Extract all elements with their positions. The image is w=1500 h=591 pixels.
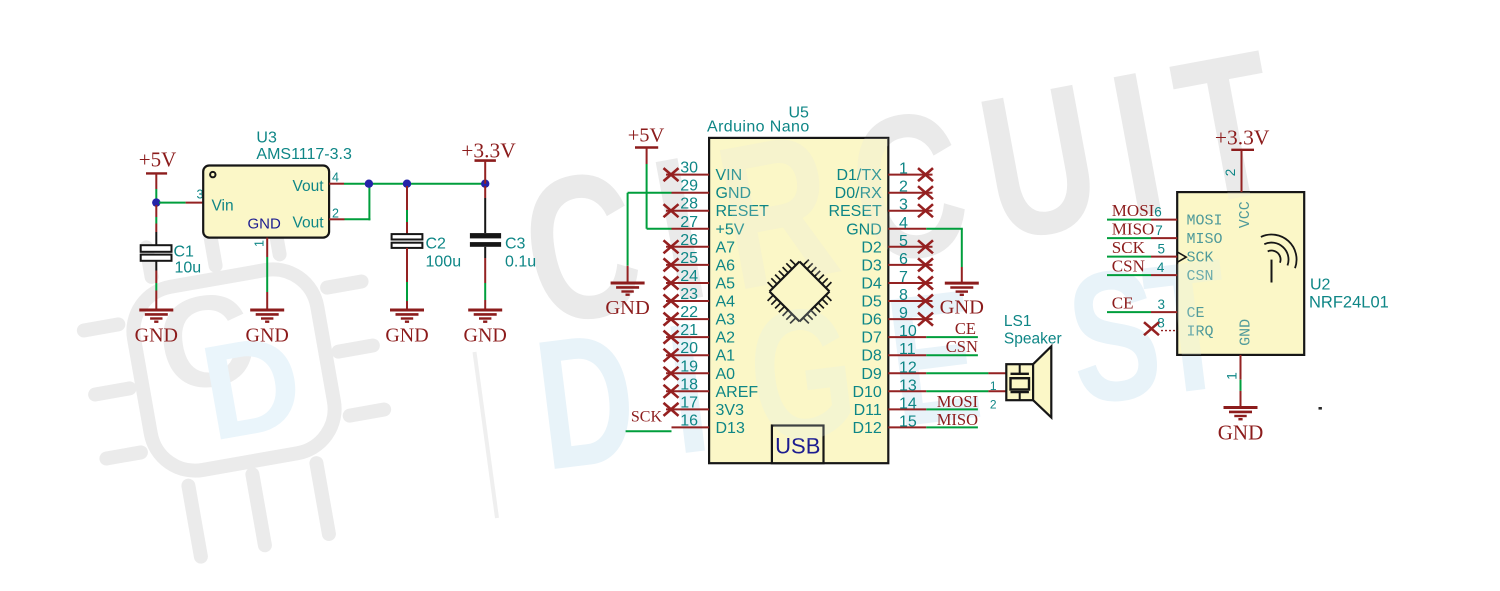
watermark text DIGEST (decorative) <box>526 220 1241 510</box>
svg-text:27: 27 <box>680 214 698 231</box>
no-connect X pin 23 <box>664 295 679 308</box>
svg-text:3V3: 3V3 <box>716 402 745 419</box>
svg-text:D6: D6 <box>861 312 882 329</box>
wire U5 pin 29 GND to ground <box>628 192 672 194</box>
svg-text:D8: D8 <box>861 348 882 365</box>
no-connect X pin 21 <box>664 331 679 344</box>
no-connect X pin 20 <box>664 349 679 362</box>
wire D8 CSN <box>926 354 978 356</box>
wire U5 pin 4 GND to ground (right) <box>926 228 963 230</box>
svg-text:2: 2 <box>899 179 908 196</box>
svg-text:0.1u: 0.1u <box>505 254 536 271</box>
svg-text:+3.3V: +3.3V <box>1215 126 1270 150</box>
svg-text:29: 29 <box>680 178 698 195</box>
svg-text:3: 3 <box>899 197 908 214</box>
wire +5V to node <box>155 173 157 189</box>
U5 left pin 28 RESET wire <box>666 210 709 212</box>
ground GND (under C1) <box>135 310 178 347</box>
wire CSN to U2 <box>1107 274 1151 276</box>
svg-text:5: 5 <box>1158 241 1166 256</box>
no-connect X pin 8 <box>918 295 933 308</box>
wire MOSI to U2 <box>1107 219 1151 221</box>
wire SCK to U2 <box>1107 256 1151 258</box>
U5 right pin 5 D2 wire <box>888 246 932 248</box>
svg-text:D9: D9 <box>861 366 882 383</box>
U5 right pin 8 D5 wire <box>888 300 932 302</box>
svg-text:CSN: CSN <box>1112 257 1145 276</box>
U5 right pin 14 D11 wire <box>888 408 926 410</box>
svg-text:MISO: MISO <box>937 410 978 429</box>
svg-text:CE: CE <box>955 319 976 338</box>
svg-text:100u: 100u <box>426 254 462 271</box>
U5 left pin 23 A4 wire <box>666 300 709 302</box>
speaker LS1 horn <box>1033 346 1051 417</box>
svg-text:16: 16 <box>680 412 698 429</box>
U5 left pin 20 A1 wire <box>666 354 709 356</box>
wire U2 GND to ground <box>1240 355 1242 380</box>
U3 pin 2 wire <box>329 218 344 220</box>
watermark text CIRCUIT (decorative) <box>506 3 1316 370</box>
U5 left pin 30 VIN wire <box>666 174 709 176</box>
U3 pin 1 wire (GND) <box>266 238 268 257</box>
wire pin2 up to bus <box>368 184 370 221</box>
svg-text:2: 2 <box>990 398 997 412</box>
no-connect X pin 28 <box>664 204 679 217</box>
svg-text:6: 6 <box>899 251 908 268</box>
svg-text:3: 3 <box>1158 297 1166 312</box>
U5 left pin 24 A5 wire <box>666 282 709 284</box>
svg-text:U3: U3 <box>256 130 277 147</box>
svg-text:Speaker: Speaker <box>1004 331 1062 348</box>
no-connect X IRQ <box>1144 322 1159 335</box>
U5 right pin 1 D1/TX wire <box>888 174 932 176</box>
ground GND (Arduino left) <box>605 283 649 319</box>
wire D7 CE <box>926 336 978 338</box>
svg-text:U2: U2 <box>1310 277 1331 294</box>
no-connect X pin 5 <box>918 240 933 253</box>
no-connect X pin 1 <box>918 168 933 181</box>
svg-text:GND: GND <box>1218 421 1264 445</box>
capacitor C3 <box>470 233 501 238</box>
speaker piezo element <box>1011 364 1030 400</box>
svg-text:Vin: Vin <box>212 198 234 215</box>
svg-text:7: 7 <box>899 269 908 286</box>
svg-text:SCK: SCK <box>631 409 663 426</box>
svg-text:D13: D13 <box>716 420 745 437</box>
svg-text:+5V: +5V <box>139 148 177 172</box>
U5 right pin 9 D6 wire <box>888 318 932 320</box>
wire node to C1 <box>155 205 157 217</box>
svg-text:MISO: MISO <box>1112 220 1155 239</box>
svg-text:5: 5 <box>899 233 908 250</box>
no-connect X pin 19 <box>664 367 679 380</box>
svg-text:+5V: +5V <box>628 125 665 147</box>
U5 right pin 13 D10 wire <box>888 390 926 392</box>
U5 right pin 11 D8 wire <box>888 354 926 356</box>
U3 pin 4 wire <box>329 183 344 185</box>
ground GND (Arduino right) <box>940 283 984 319</box>
svg-text:GND: GND <box>940 297 984 319</box>
no-connect X pin 22 <box>664 313 679 326</box>
wire C2 to ground <box>406 248 408 282</box>
svg-text:1: 1 <box>899 161 908 178</box>
no-connect X pin 6 <box>918 258 933 271</box>
svg-text:1: 1 <box>253 240 267 247</box>
svg-text:30: 30 <box>680 160 698 177</box>
svg-text:AMS1117-3.3: AMS1117-3.3 <box>256 146 352 163</box>
no-connect X pin 30 <box>664 168 679 181</box>
U5 left pin 29 GND wire <box>672 192 710 194</box>
wire D12 MISO <box>926 426 978 428</box>
svg-text:11: 11 <box>899 341 916 358</box>
watermark separator bar <box>475 352 498 518</box>
svg-text:13: 13 <box>899 377 917 394</box>
svg-text:1: 1 <box>1225 372 1240 380</box>
ground GND (under C2) <box>385 310 428 347</box>
svg-text:1: 1 <box>990 379 997 393</box>
svg-text:GND: GND <box>246 325 289 347</box>
svg-text:14: 14 <box>899 395 917 412</box>
svg-text:4: 4 <box>1157 260 1165 275</box>
svg-text:GND: GND <box>135 325 178 347</box>
wire D10 to speaker pin 2 <box>926 390 988 392</box>
U5 left pin 19 A0 wire <box>666 372 709 374</box>
svg-text:9: 9 <box>899 305 908 322</box>
svg-text:10u: 10u <box>175 260 202 277</box>
junction node VIN-C1 <box>152 198 160 206</box>
svg-text:SCK: SCK <box>1112 238 1146 257</box>
U5 left pin 27 +5V wire <box>672 228 710 230</box>
U2 SCK clock input triangle <box>1177 252 1186 262</box>
svg-text:19: 19 <box>680 358 698 375</box>
wire D11 MOSI <box>926 408 978 410</box>
3.3V bus wire <box>369 183 485 185</box>
svg-text:D7: D7 <box>861 330 882 347</box>
svg-text:21: 21 <box>680 322 698 339</box>
svg-text:MOSI: MOSI <box>1112 201 1155 220</box>
svg-text:CSN: CSN <box>946 337 978 356</box>
svg-text:12: 12 <box>899 359 917 376</box>
NRF24L01 U2 body <box>1177 192 1304 355</box>
no-connect X pin 9 <box>918 313 933 326</box>
no-connect X pin 3 <box>918 204 933 217</box>
svg-text:28: 28 <box>680 196 698 213</box>
Arduino U5 body <box>709 138 888 463</box>
svg-text:A0: A0 <box>716 366 736 383</box>
capacitor C2 <box>392 234 423 239</box>
svg-text:GND: GND <box>605 297 649 319</box>
U5 right pin 15 D12 wire <box>888 426 926 428</box>
svg-text:2: 2 <box>1223 169 1238 177</box>
svg-text:Arduino Nano: Arduino Nano <box>707 119 810 136</box>
stray dot <box>1319 407 1322 410</box>
svg-text:23: 23 <box>680 286 698 303</box>
wire node to U3 pin 3 <box>159 202 186 204</box>
USB connector box <box>772 426 824 464</box>
ground GND (NRF) <box>1218 408 1264 445</box>
svg-text:22: 22 <box>680 304 698 321</box>
junction node bus-2 <box>403 180 411 188</box>
junction node bus-3 <box>481 180 489 188</box>
U5 right pin 10 D7 wire <box>888 336 926 338</box>
svg-text:18: 18 <box>680 376 698 393</box>
wire C1 to ground <box>155 261 157 271</box>
svg-text:C1: C1 <box>174 244 195 261</box>
antenna glyph <box>1261 235 1297 283</box>
no-connect X pin 26 <box>664 240 679 253</box>
wire D9 to speaker pin 1 <box>926 372 988 374</box>
U3 pin-1 indicator circle <box>210 172 215 177</box>
wire +3.3V to U2 VCC <box>1241 150 1243 192</box>
svg-text:MOSI: MOSI <box>937 392 978 411</box>
svg-text:LS1: LS1 <box>1004 313 1032 330</box>
wire +5V to U5 pin 27 <box>646 148 648 165</box>
svg-text:8: 8 <box>899 287 908 304</box>
svg-text:CE: CE <box>1112 294 1134 313</box>
svg-text:Vout: Vout <box>292 214 324 231</box>
svg-text:17: 17 <box>680 394 698 411</box>
speaker LS1 body <box>1006 364 1033 400</box>
svg-text:+3.3V: +3.3V <box>461 139 516 163</box>
svg-text:C2: C2 <box>426 236 447 253</box>
svg-text:A1: A1 <box>716 348 736 365</box>
svg-text:GND: GND <box>248 215 282 232</box>
regulator U3 AMS1117-3.3 body <box>203 166 329 238</box>
svg-text:C3: C3 <box>505 236 526 253</box>
U2 IRQ no-connect stub <box>1161 330 1177 332</box>
U5 right pin 2 D0/RX wire <box>888 192 932 194</box>
svg-text:26: 26 <box>680 232 698 249</box>
no-connect X pin 24 <box>664 277 679 290</box>
U5 left pin 16 D13 wire <box>672 426 710 428</box>
ground GND (under U3) <box>246 310 289 347</box>
wire +3.3V to bus <box>484 161 486 184</box>
wire MISO to U2 <box>1107 237 1151 239</box>
wire C3 to ground <box>484 247 486 258</box>
wire bus to C2 <box>406 186 408 210</box>
capacitor C1 <box>141 245 172 252</box>
U5 left pin 21 A2 wire <box>666 336 709 338</box>
U5 left pin 18 AREF wire <box>666 390 709 392</box>
U5 right pin 3 RESET wire <box>888 210 932 212</box>
svg-text:10: 10 <box>899 323 917 340</box>
svg-text:25: 25 <box>680 250 698 267</box>
U5 left pin 25 A6 wire <box>666 264 709 266</box>
U5 chip glyph <box>770 262 830 322</box>
svg-text:15: 15 <box>899 413 917 430</box>
wire U5 pin 16 D13 (SCK net) <box>626 430 672 432</box>
svg-text:GND: GND <box>464 325 507 347</box>
svg-text:GND: GND <box>1238 319 1255 346</box>
U5 right pin 6 D3 wire <box>888 264 932 266</box>
wire bus to C3 <box>484 186 486 198</box>
no-connect X pin 2 <box>918 186 933 199</box>
watermark chip logo <box>72 212 404 570</box>
svg-text:24: 24 <box>680 268 698 285</box>
svg-text:7: 7 <box>1155 223 1163 238</box>
junction node bus-1 <box>365 180 373 188</box>
U5 left pin 22 A3 wire <box>666 318 709 320</box>
wire CE to U2 <box>1107 311 1151 313</box>
svg-text:20: 20 <box>680 340 698 357</box>
U5 left pin 17 3V3 wire <box>666 408 709 410</box>
no-connect X pin 7 <box>918 277 933 290</box>
no-connect X pin 17 <box>664 403 679 416</box>
no-connect X pin 25 <box>664 258 679 271</box>
svg-text:GND: GND <box>385 325 428 347</box>
U5 right pin 12 D9 wire <box>888 372 926 374</box>
svg-text:4: 4 <box>899 215 908 232</box>
U5 right pin 4 GND wire <box>888 228 926 230</box>
svg-text:NRF24L01: NRF24L01 <box>1309 293 1389 311</box>
svg-text:4: 4 <box>332 171 339 185</box>
svg-text:6: 6 <box>1154 204 1162 219</box>
U5 left pin 26 A7 wire <box>666 246 709 248</box>
svg-text:2: 2 <box>332 207 339 221</box>
no-connect X pin 18 <box>664 385 679 398</box>
ground GND (under C3) <box>464 310 507 347</box>
svg-text:Vout: Vout <box>292 178 324 195</box>
U5 right pin 7 D4 wire <box>888 282 932 284</box>
